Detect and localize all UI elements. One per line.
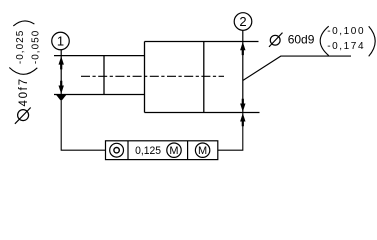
svg-text:-0,025: -0,025 — [15, 30, 26, 64]
svg-text:2: 2 — [239, 14, 246, 29]
svg-text:M: M — [169, 145, 178, 157]
svg-text:40f7: 40f7 — [18, 79, 30, 107]
svg-text:M: M — [198, 145, 207, 157]
svg-text:0,125: 0,125 — [135, 145, 161, 157]
svg-text:-0,050: -0,050 — [30, 30, 41, 64]
svg-text:60d9: 60d9 — [288, 33, 315, 47]
svg-text:-0,174: -0,174 — [327, 41, 364, 52]
svg-text:1: 1 — [57, 34, 64, 49]
svg-text:-0,100: -0,100 — [327, 26, 364, 37]
